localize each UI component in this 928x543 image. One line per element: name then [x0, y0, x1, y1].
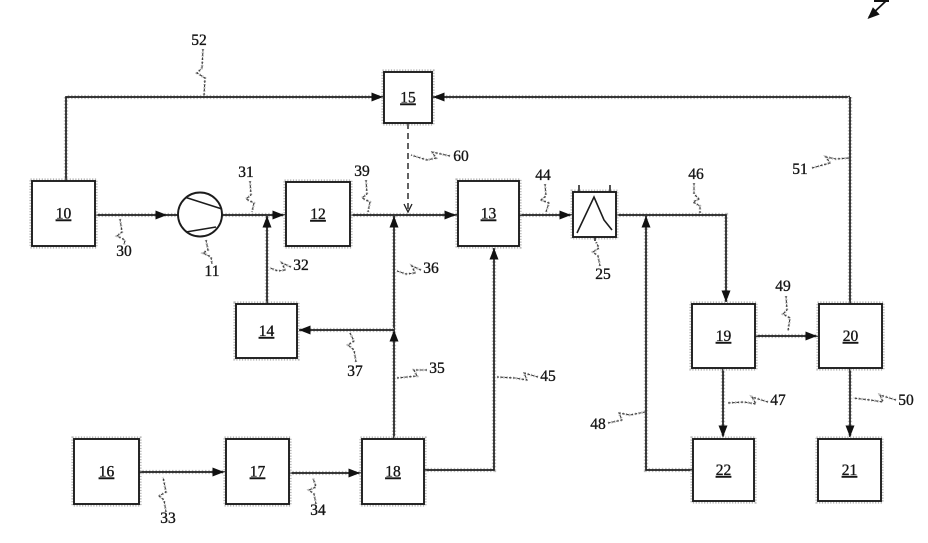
svg-text:60: 60 [453, 148, 469, 165]
svg-text:50: 50 [898, 392, 914, 409]
svg-text:25: 25 [595, 266, 611, 283]
svg-text:32: 32 [293, 257, 309, 274]
svg-text:35: 35 [429, 360, 445, 377]
svg-text:39: 39 [354, 163, 370, 180]
svg-text:33: 33 [160, 510, 176, 527]
svg-text:14: 14 [259, 323, 275, 340]
svg-text:15: 15 [400, 90, 416, 107]
svg-text:31: 31 [238, 164, 254, 181]
svg-text:16: 16 [99, 464, 115, 481]
svg-text:19: 19 [716, 328, 732, 345]
svg-text:47: 47 [770, 392, 786, 409]
svg-text:18: 18 [385, 464, 401, 481]
svg-text:37: 37 [347, 363, 363, 380]
svg-text:52: 52 [191, 32, 207, 49]
svg-text:13: 13 [481, 206, 497, 223]
svg-text:49: 49 [775, 278, 791, 295]
svg-text:20: 20 [843, 328, 859, 345]
svg-text:46: 46 [688, 166, 704, 183]
svg-text:44: 44 [535, 167, 551, 184]
svg-text:10: 10 [56, 206, 72, 223]
svg-text:17: 17 [250, 464, 266, 481]
svg-text:48: 48 [590, 416, 606, 433]
svg-text:45: 45 [540, 368, 556, 385]
svg-text:30: 30 [116, 243, 132, 260]
svg-text:51: 51 [792, 161, 808, 178]
svg-text:12: 12 [310, 206, 326, 223]
svg-text:21: 21 [842, 462, 858, 479]
svg-text:11: 11 [205, 263, 220, 280]
svg-text:36: 36 [423, 260, 439, 277]
svg-text:22: 22 [716, 462, 732, 479]
svg-text:34: 34 [310, 502, 326, 519]
